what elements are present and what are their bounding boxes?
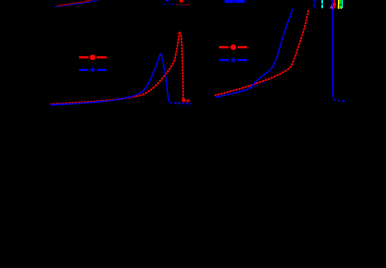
upper-left faint baseline: blue specks right xyxy=(180,5,191,7)
top-right cluster: yellow speck xyxy=(340,7,342,9)
left subplot red curve with dot markers xyxy=(51,32,190,105)
right subplot red curve with dot markers xyxy=(216,10,309,95)
left subplot legend: blue dash-dot line xyxy=(79,67,107,73)
left subplot blue dash-dot curve xyxy=(51,53,191,106)
top-right cluster: cyan vertical fragment xyxy=(321,0,323,9)
right blue faint marker row near crossing xyxy=(252,82,266,87)
upper blue marker cut at top edge xyxy=(165,0,168,2)
right subplot blue dashed flat tail xyxy=(333,99,345,102)
upper-left faint baseline: blue dashes xyxy=(163,3,178,5)
right subplot legend: red line xyxy=(219,44,247,50)
left blue faint marker row xyxy=(176,105,190,107)
right subplot blue dash-dot curve xyxy=(217,10,293,97)
right subplot blue vertical drop line xyxy=(333,0,346,101)
top-right cluster: yellow vertical fragment xyxy=(338,0,340,9)
right legend red circle marker xyxy=(230,44,236,50)
top-right cluster: green vertical fragment xyxy=(340,0,342,9)
upper-left fragment: blue curve tail rising out of top edge xyxy=(56,0,99,7)
top-right cluster: red vertical fragment with marker xyxy=(333,0,336,9)
top-right cluster: purple triangle marker xyxy=(330,5,334,9)
left subplot legend: red line xyxy=(79,55,107,61)
left red tail markers xyxy=(182,98,186,102)
top-right cluster: cyan second vertical fragment xyxy=(341,0,343,8)
left legend red circle marker xyxy=(90,55,96,61)
right subplot legend: blue dash-dot line xyxy=(219,57,247,63)
upper-left fragment: red curve tail rising out of top edge xyxy=(58,0,92,6)
top-right cluster: blue dash-dot vertical fragment xyxy=(313,0,315,3)
upper-right legend fragment: blue dash-dot line cut at top xyxy=(225,0,245,4)
left legend blue star marker xyxy=(89,67,95,73)
upper red marker cut at top edge xyxy=(179,0,183,3)
upper-left faint baseline: red dots xyxy=(177,4,190,6)
right legend blue star marker xyxy=(230,57,236,63)
left blue flat dashed tail xyxy=(170,103,191,104)
